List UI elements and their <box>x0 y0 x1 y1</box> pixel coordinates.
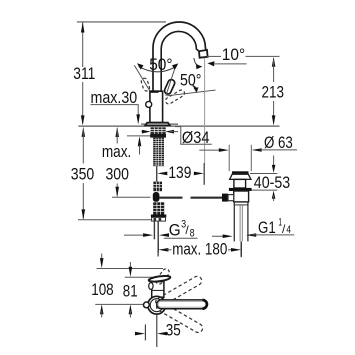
extension line from outlet down to 139 dimension <box>204 58 206 163</box>
svg-text:311: 311 <box>73 65 95 83</box>
svg-text:108: 108 <box>91 281 114 299</box>
top view: swivel base circles <box>148 296 166 314</box>
svg-text:350: 350 <box>71 165 95 183</box>
base flange of faucet <box>145 123 170 126</box>
top view: spout arm (solid) <box>157 300 208 309</box>
dimension 81 <box>123 262 153 318</box>
dimension Ø 63 <box>199 134 297 152</box>
top view: pull rod top ellipse on body <box>149 283 153 290</box>
pull rod below shank <box>156 166 158 181</box>
lever handle right dashed position <box>164 89 185 105</box>
svg-text:213: 213 <box>262 84 285 102</box>
knurled hose connector <box>153 182 162 192</box>
svg-text:35: 35 <box>166 321 181 339</box>
dimension 139 <box>157 164 204 182</box>
mounting locknut under deck <box>150 127 166 137</box>
angle leg left dashed lever axis <box>134 65 149 90</box>
drain lower body <box>234 191 249 202</box>
drain tailpipe <box>234 202 248 257</box>
svg-text:300: 300 <box>105 165 129 183</box>
dimension max. 300 (vertical) <box>102 127 151 197</box>
angle leg right dashed lever axis <box>167 90 216 96</box>
angle leg solid lever axis <box>166 67 176 96</box>
50 degree label (lever opening) with leader <box>180 71 202 92</box>
pop-up linkage rod to drain <box>159 197 183 199</box>
lever handle (solid) <box>164 79 176 95</box>
G 1 1/4 dimension arrows <box>212 233 256 238</box>
supply hose lines G3/8 <box>153 221 155 239</box>
spout outer edge <box>153 22 207 92</box>
pop-up rod knob at drain <box>222 194 228 202</box>
svg-text:139: 139 <box>168 164 191 182</box>
ball joint of pop-up rod <box>153 192 160 202</box>
10 degree label and reference line <box>194 46 280 70</box>
deck (mounting surface) lines <box>78 124 279 126</box>
svg-text:50°: 50° <box>149 56 172 74</box>
dimension 35 <box>135 314 181 347</box>
faucet body <box>150 91 163 122</box>
threaded shank with knurl texture <box>153 138 164 167</box>
knurled connector lower <box>151 202 166 221</box>
svg-text:40-53: 40-53 <box>254 174 290 192</box>
wire extension line from spout top to 311 dimension <box>77 21 166 23</box>
drain pipe divider <box>234 204 249 206</box>
spout aerator outlet block <box>199 50 208 58</box>
G 3/8 label <box>164 219 198 240</box>
svg-text:50°: 50° <box>180 71 202 89</box>
top view: pull rod knob <box>144 302 150 308</box>
50 degree arc (handle swing) <box>137 56 178 74</box>
lever handle left dashed position <box>141 77 151 91</box>
top view: lever handle <box>148 275 170 283</box>
top view: dashed spout rotated up <box>154 275 203 309</box>
label max.30 with leader <box>91 89 151 155</box>
drain upper body <box>234 179 246 188</box>
svg-text:10°: 10° <box>222 46 245 64</box>
top view: dashed spout rotated down <box>155 301 204 335</box>
G 3/8 dimension arrows <box>124 233 169 237</box>
pull-rod knob on body <box>146 101 152 107</box>
svg-text:Ø 63: Ø 63 <box>264 134 293 152</box>
drain flange extension lines <box>228 145 230 171</box>
svg-text:4: 4 <box>286 224 291 236</box>
spout inner edge <box>161 31 199 92</box>
G 1 1/4 label <box>252 216 294 237</box>
top view: dashed lever position <box>155 268 171 286</box>
label Ø34 with leader and arrows <box>142 127 212 148</box>
dimension 213 (right vertical) <box>262 57 285 126</box>
dimension max. 180 <box>158 240 241 258</box>
top view: body <box>152 282 164 298</box>
dimension 108 <box>91 254 163 318</box>
dimension 311 (left vertical) <box>73 22 95 125</box>
svg-text:G: G <box>169 222 181 240</box>
dimension 40-53 <box>250 156 290 202</box>
shared bottom reference line for 108/81 <box>95 303 143 305</box>
svg-text:max. 180: max. 180 <box>172 240 227 258</box>
svg-text:G1: G1 <box>258 219 276 237</box>
svg-text:81: 81 <box>123 282 138 300</box>
svg-text:max.: max. <box>102 143 132 161</box>
dimension 350 (left vertical) <box>71 127 152 220</box>
drain flange <box>230 171 251 179</box>
drain lock ring <box>229 188 252 191</box>
